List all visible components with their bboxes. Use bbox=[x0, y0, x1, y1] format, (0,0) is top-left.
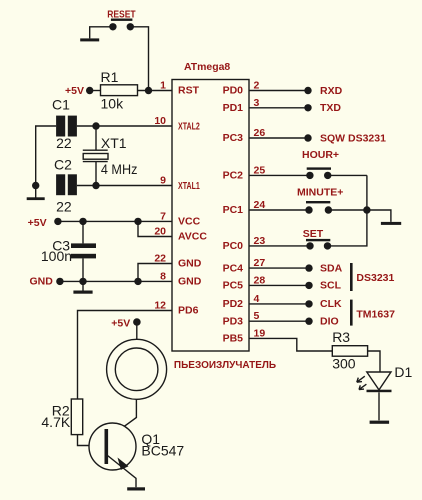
svg-text:GND: GND bbox=[178, 276, 202, 288]
svg-text:AVCC: AVCC bbox=[178, 231, 207, 243]
svg-text:1: 1 bbox=[160, 80, 166, 92]
svg-text:+5V: +5V bbox=[65, 85, 84, 97]
svg-text:R3: R3 bbox=[332, 329, 350, 345]
svg-text:7: 7 bbox=[160, 210, 166, 222]
svg-text:RST: RST bbox=[178, 85, 200, 97]
svg-text:+5V: +5V bbox=[111, 318, 130, 330]
svg-text:C1: C1 bbox=[52, 97, 70, 113]
svg-text:4.7K: 4.7K bbox=[41, 414, 70, 430]
svg-text:2: 2 bbox=[254, 80, 260, 92]
svg-text:SCL: SCL bbox=[320, 280, 342, 292]
svg-text:HOUR+: HOUR+ bbox=[302, 149, 339, 161]
svg-text:22: 22 bbox=[56, 135, 72, 151]
svg-text:24: 24 bbox=[254, 199, 266, 211]
svg-text:28: 28 bbox=[254, 274, 266, 286]
svg-text:PC1: PC1 bbox=[223, 204, 244, 216]
svg-text:GND: GND bbox=[30, 276, 54, 288]
svg-text:ПЬЕЗОИЗЛУЧАТЕЛЬ: ПЬЕЗОИЗЛУЧАТЕЛЬ bbox=[174, 359, 277, 371]
svg-text:20: 20 bbox=[154, 226, 166, 238]
svg-text:27: 27 bbox=[254, 257, 266, 269]
svg-text:4 MHz: 4 MHz bbox=[101, 161, 137, 177]
svg-text:TM1637: TM1637 bbox=[356, 309, 395, 321]
svg-text:PD1: PD1 bbox=[223, 102, 244, 114]
svg-text:D1: D1 bbox=[394, 364, 412, 380]
svg-text:PC2: PC2 bbox=[223, 170, 244, 182]
svg-text:RXD: RXD bbox=[320, 85, 343, 97]
svg-text:SQW DS3231: SQW DS3231 bbox=[320, 132, 386, 144]
svg-text:26: 26 bbox=[254, 127, 266, 139]
svg-text:19: 19 bbox=[254, 327, 266, 339]
svg-text:SDA: SDA bbox=[320, 262, 343, 274]
svg-text:XT1: XT1 bbox=[101, 135, 127, 151]
svg-text:100n: 100n bbox=[41, 248, 72, 264]
svg-text:R1: R1 bbox=[101, 69, 119, 85]
svg-text:ATmega8: ATmega8 bbox=[184, 61, 230, 73]
svg-text:MINUTE+: MINUTE+ bbox=[297, 186, 343, 198]
svg-text:PC0: PC0 bbox=[223, 240, 244, 252]
svg-text:PD3: PD3 bbox=[223, 315, 244, 327]
svg-text:5: 5 bbox=[254, 310, 260, 322]
svg-text:DS3231: DS3231 bbox=[356, 272, 394, 284]
svg-text:25: 25 bbox=[254, 164, 266, 176]
svg-text:300: 300 bbox=[332, 356, 356, 372]
svg-text:12: 12 bbox=[154, 300, 166, 312]
svg-text:BC547: BC547 bbox=[141, 443, 184, 459]
svg-text:9: 9 bbox=[160, 175, 166, 187]
svg-text:SET: SET bbox=[303, 228, 324, 240]
svg-text:TXD: TXD bbox=[320, 102, 341, 114]
svg-text:CLK: CLK bbox=[320, 298, 342, 310]
svg-text:10: 10 bbox=[154, 115, 166, 127]
svg-text:+5V: +5V bbox=[28, 217, 47, 229]
svg-text:GND: GND bbox=[178, 258, 202, 270]
svg-text:8: 8 bbox=[160, 270, 166, 282]
svg-text:PD0: PD0 bbox=[223, 85, 244, 97]
svg-text:4: 4 bbox=[254, 293, 260, 305]
svg-text:PC5: PC5 bbox=[223, 280, 244, 292]
svg-text:PD2: PD2 bbox=[223, 298, 244, 310]
svg-text:22: 22 bbox=[154, 253, 166, 265]
svg-text:22: 22 bbox=[56, 199, 72, 215]
svg-text:PC3: PC3 bbox=[223, 132, 244, 144]
svg-text:XTAL2: XTAL2 bbox=[178, 121, 200, 133]
svg-text:PC4: PC4 bbox=[223, 262, 244, 274]
svg-text:23: 23 bbox=[254, 235, 266, 247]
svg-text:PD6: PD6 bbox=[178, 305, 199, 317]
svg-text:XTAL1: XTAL1 bbox=[178, 180, 200, 192]
svg-text:C2: C2 bbox=[54, 157, 72, 173]
svg-text:10k: 10k bbox=[101, 96, 125, 112]
svg-text:DIO: DIO bbox=[320, 316, 339, 328]
svg-text:3: 3 bbox=[254, 97, 260, 109]
svg-text:VCC: VCC bbox=[178, 216, 201, 228]
svg-text:PB5: PB5 bbox=[223, 333, 244, 345]
